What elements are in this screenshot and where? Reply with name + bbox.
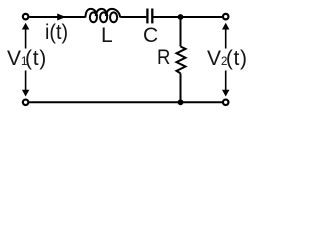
arrowhead V2 up bbox=[222, 23, 229, 30]
junction node bottom bbox=[178, 99, 184, 105]
arrowhead V1 down bbox=[22, 90, 29, 97]
label V2(t) bbox=[207, 48, 248, 69]
label L bbox=[101, 25, 113, 46]
voltage arrow shaft V2 down bbox=[225, 71, 227, 91]
inductor L hump 2 bbox=[96, 9, 108, 16]
inductor L loop 2 bbox=[100, 12, 107, 22]
resistor R bbox=[177, 47, 186, 74]
inductor L hump 3 bbox=[106, 9, 120, 18]
capacitor C plate right bbox=[151, 9, 153, 24]
inductor L loop 3 bbox=[110, 12, 117, 22]
wire inductor-to-capacitor bbox=[120, 16, 146, 18]
wire top-left segment bbox=[29, 16, 85, 18]
terminal bottom-left bbox=[23, 100, 29, 106]
voltage arrow shaft V1 down bbox=[25, 71, 27, 91]
inductor L hump 1 bbox=[85, 9, 97, 18]
wire resistor branch top bbox=[180, 17, 182, 47]
label V1(t) bbox=[7, 48, 47, 69]
voltage arrow shaft V2 up bbox=[225, 29, 227, 49]
arrowhead V1 up bbox=[22, 23, 29, 30]
terminal top-right bbox=[223, 14, 229, 20]
wire resistor branch bottom bbox=[180, 73, 182, 102]
label i(t) bbox=[45, 22, 68, 43]
capacitor C plate left bbox=[146, 9, 148, 24]
label C bbox=[143, 25, 158, 46]
arrowhead V2 down bbox=[222, 90, 229, 97]
junction node top bbox=[178, 14, 184, 20]
terminal bottom-right bbox=[223, 100, 229, 106]
wire bottom rail bbox=[29, 101, 222, 103]
voltage arrow shaft V1 up bbox=[25, 29, 27, 49]
current arrow i(t) head bbox=[57, 14, 66, 21]
wire capacitor-to-right-terminal bbox=[153, 16, 222, 18]
label R bbox=[157, 47, 170, 68]
inductor L loop 1 bbox=[90, 12, 97, 22]
terminal top-left bbox=[23, 14, 29, 20]
